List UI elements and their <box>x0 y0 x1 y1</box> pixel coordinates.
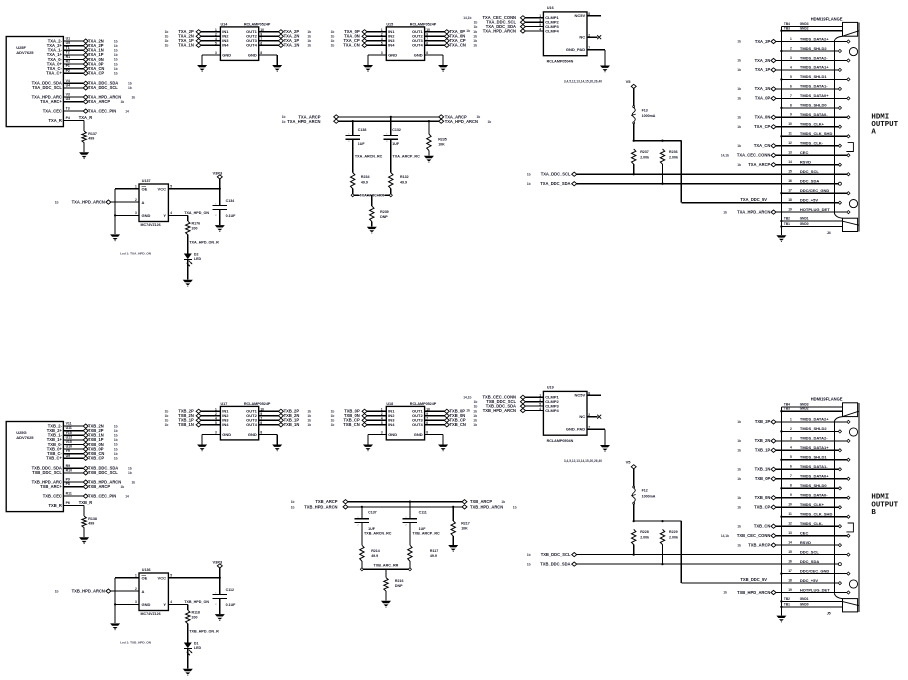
svg-text:GND: GND <box>388 53 397 58</box>
capacitor C138 1UF <box>345 120 366 146</box>
wire net TXA_HPD_ON <box>168 211 209 221</box>
svg-text:TXA_CP: TXA_CP <box>88 71 104 76</box>
pin 8 NC5V stub <box>587 12 601 16</box>
wire shield ground bus <box>780 407 782 615</box>
svg-text:TMDS_CLK_SHD: TMDS_CLK_SHD <box>800 512 833 517</box>
node TXA_DDC_SDA <box>83 81 132 86</box>
svg-text:U17: U17 <box>221 402 228 406</box>
pin 7 TMDS_DATA0+ <box>776 93 850 100</box>
wire net TXB_CEC_CONN <box>463 394 543 400</box>
pin 18 DDC_+5V <box>788 578 841 585</box>
svg-text:49.9: 49.9 <box>371 554 378 558</box>
svg-text:TXA_DDC_5V: TXA_DDC_5V <box>740 197 767 202</box>
svg-text:1b: 1b <box>737 449 741 453</box>
wire net TXB_HPD_ARCN rail <box>291 505 517 510</box>
wire net TXB_R <box>63 500 92 516</box>
svg-text:14: 14 <box>788 160 792 164</box>
svg-text:1b: 1b <box>474 20 478 24</box>
svg-text:1000mA: 1000mA <box>642 114 656 118</box>
svg-text:C138: C138 <box>358 128 367 132</box>
wire TB3 GND2 <box>781 26 842 31</box>
svg-text:P6: P6 <box>66 501 70 505</box>
wire net TXA_DDC_SDA <box>63 82 83 84</box>
svg-text:2: 2 <box>348 141 350 143</box>
svg-text:1b: 1b <box>114 44 118 48</box>
svg-text:1b: 1b <box>737 40 741 44</box>
svg-text:14: 14 <box>125 494 129 498</box>
svg-text:HDMI19FLANGE: HDMI19FLANGE <box>811 16 843 21</box>
wire net TXB_0P <box>63 448 83 450</box>
node TXB_DDC_SDA <box>83 466 132 471</box>
svg-text:2.00k: 2.00k <box>640 536 649 540</box>
svg-text:10: 10 <box>788 503 792 507</box>
svg-text:4: 4 <box>170 600 172 604</box>
wire OE/GND tie rail <box>114 578 139 623</box>
svg-text:1b: 1b <box>737 59 741 63</box>
ground <box>215 614 225 621</box>
svg-text:RSVD: RSVD <box>800 540 811 545</box>
svg-text:TXB_ARCP: TXB_ARCP <box>315 499 337 504</box>
wire net TXB_1N out <box>259 422 311 427</box>
svg-text:1b: 1b <box>737 87 741 91</box>
svg-text:TXB_CP: TXB_CP <box>754 505 770 510</box>
wire net TXA_DDC_SDA <box>474 23 544 29</box>
svg-text:1b: 1b <box>132 95 136 99</box>
svg-text:17: 17 <box>788 189 792 193</box>
svg-text:1b: 1b <box>165 35 169 39</box>
svg-text:1b: 1b <box>737 125 741 129</box>
svg-text:R118: R118 <box>192 611 200 615</box>
svg-text:TXA_HPD_ARCN: TXA_HPD_ARCN <box>287 119 320 124</box>
svg-text:TXA_HPD_ON: TXA_HPD_ON <box>184 211 209 215</box>
svg-text:TMDS_DATA2-: TMDS_DATA2- <box>800 55 828 60</box>
svg-text:3: 3 <box>135 600 137 604</box>
wire net TXA_CN out <box>425 43 477 48</box>
svg-text:1: 1 <box>790 37 792 41</box>
wire net TXB_0N out <box>425 413 477 418</box>
ground <box>600 66 610 73</box>
svg-text:1b: 1b <box>291 506 295 510</box>
node TXB_2P <box>737 419 776 424</box>
svg-text:T3: T3 <box>66 107 70 111</box>
wire net TXA_ARCP_RC <box>391 139 420 172</box>
buffer U136 MC74VZ1G126 <box>135 568 172 616</box>
HDMI connector J4 (HDMI19FLANGE) <box>811 16 843 21</box>
wire net TXB_2N out <box>259 413 311 418</box>
svg-text:RCLAMP0504N: RCLAMP0504N <box>547 60 574 64</box>
svg-text:TMDS_DATA0-: TMDS_DATA0- <box>800 112 828 117</box>
svg-text:TXA_CN: TXA_CN <box>450 43 466 48</box>
wire net TXB_DDC_SCL <box>527 552 834 557</box>
svg-text:1b: 1b <box>331 39 335 43</box>
svg-text:1b: 1b <box>527 173 531 177</box>
svg-text:GND2: GND2 <box>800 407 809 411</box>
pin 14 RSVD <box>776 160 842 167</box>
svg-text:C112: C112 <box>226 588 234 592</box>
wire net TXA_CEC_PIN <box>63 110 83 112</box>
pin 1 TMDS_DATA2+ <box>776 36 850 43</box>
ground <box>79 152 89 159</box>
wire VCC to V3P3 <box>168 170 223 190</box>
pin 7 TMDS_DATA0+ <box>776 474 850 481</box>
resistor R176 200 <box>186 221 220 253</box>
svg-text:TXA_ARC+: TXA_ARC+ <box>40 99 62 104</box>
svg-text:F13: F13 <box>642 108 648 112</box>
svg-text:499: 499 <box>88 136 94 140</box>
resistor R216 DNP <box>384 569 404 600</box>
svg-text:TXB_CEC_CONN: TXB_CEC_CONN <box>737 533 770 538</box>
pin 15 DDC_SCL <box>788 549 850 556</box>
svg-text:9: 9 <box>790 493 792 497</box>
svg-text:TXA_DDC_SDA: TXA_DDC_SDA <box>540 181 570 186</box>
svg-text:1b: 1b <box>132 480 136 484</box>
wire net TXA_0N <box>63 59 83 61</box>
wire net TXA_CP in <box>331 38 387 43</box>
svg-text:12: 12 <box>788 522 792 526</box>
svg-text:R235: R235 <box>438 137 447 141</box>
svg-text:ADV7625: ADV7625 <box>16 50 34 55</box>
wire GND pin3 <box>202 55 220 65</box>
svg-text:1b: 1b <box>165 410 169 414</box>
svg-text:GND: GND <box>414 53 423 58</box>
svg-text:8: 8 <box>426 51 428 55</box>
node TXA_0N <box>737 115 776 120</box>
pin 16 DDC_SDA <box>788 179 841 186</box>
svg-text:TMDS_SHLD0: TMDS_SHLD0 <box>800 483 827 488</box>
svg-text:1b: 1b <box>55 590 59 594</box>
svg-text:P8: P8 <box>66 482 70 486</box>
ground <box>424 156 434 163</box>
wire shield ground bus <box>780 27 782 235</box>
wire TB4 GND3 <box>781 22 842 27</box>
wire GND pin3 <box>202 435 220 445</box>
IC U25F (ADV7625) HDMI transmitter section TXA <box>6 37 70 127</box>
svg-text:1UF: 1UF <box>392 142 400 146</box>
svg-text:1b: 1b <box>307 419 311 423</box>
svg-text:R10: R10 <box>66 468 72 472</box>
svg-text:2.00k: 2.00k <box>669 536 678 540</box>
svg-text:9: 9 <box>790 113 792 117</box>
node TXA_CP <box>83 71 117 76</box>
svg-text:1b: 1b <box>527 182 531 186</box>
node TXA_CP <box>737 124 776 129</box>
pin 5 TMDS_SHLD1 <box>780 74 850 81</box>
svg-text:TXB_ARC+: TXB_ARC+ <box>40 484 62 489</box>
pin 13 CEC <box>776 150 850 157</box>
svg-text:TXA_HPD_ARCN: TXA_HPD_ARCN <box>483 28 516 33</box>
wire net TXB_HPD_ARCN input <box>55 589 139 594</box>
TVS clamp U19 RCLAMP0504N (CEC/DDC) <box>543 385 587 443</box>
svg-text:RCLAMP0524P: RCLAMP0524P <box>244 22 271 26</box>
svg-text:4: 4 <box>539 407 541 411</box>
wire net TXB_0P in <box>331 409 387 414</box>
svg-text:NC5V: NC5V <box>575 393 586 398</box>
svg-text:1b: 1b <box>307 410 311 414</box>
svg-text:1b: 1b <box>473 30 477 34</box>
pin 8 NC5V stub <box>587 391 601 395</box>
connector body outline <box>827 22 859 235</box>
wire net TXA_2N <box>63 40 83 42</box>
svg-text:1b: 1b <box>331 414 335 418</box>
svg-text:2.00k: 2.00k <box>669 155 678 159</box>
svg-text:1b: 1b <box>473 44 477 48</box>
wire net TXA_1P in <box>165 38 221 43</box>
node TXA_1N <box>737 86 776 91</box>
svg-text:R228: R228 <box>640 530 649 534</box>
wire net TXA_ARCP <box>63 101 83 103</box>
svg-text:TXB_1P: TXB_1P <box>755 448 771 453</box>
wire net TXB_HPD_ARCN <box>466 407 543 413</box>
capacitor C134 0.1UF <box>213 189 237 225</box>
wire net TXA_CP <box>63 72 83 74</box>
svg-text:TMDS_SHLD2: TMDS_SHLD2 <box>800 46 827 51</box>
svg-text:GND0: GND0 <box>800 602 809 606</box>
svg-text:R236: R236 <box>669 150 678 154</box>
svg-text:13: 13 <box>788 151 792 155</box>
TVS clamp U16 RCLAMP0504N (CEC/DDC) <box>543 6 587 64</box>
svg-text:5: 5 <box>170 574 172 578</box>
svg-text:14: 14 <box>125 109 129 113</box>
svg-text:TXB_HPD_ARCN: TXB_HPD_ARCN <box>72 589 105 594</box>
svg-text:TXB_ARC_RR: TXB_ARC_RR <box>374 564 399 568</box>
svg-text:Y: Y <box>163 213 166 218</box>
svg-text:1b: 1b <box>307 39 311 43</box>
svg-text:U9: U9 <box>66 454 71 458</box>
svg-text:8: 8 <box>588 12 590 16</box>
svg-text:U10: U10 <box>66 445 72 449</box>
svg-text:DNP: DNP <box>395 584 403 588</box>
caption HDMI OUTPUT B <box>871 494 898 517</box>
svg-text:TMDS_DATA1+: TMDS_DATA1+ <box>800 445 829 450</box>
svg-text:U9: U9 <box>66 41 71 45</box>
svg-text:1b: 1b <box>121 485 125 489</box>
ground <box>272 445 282 452</box>
connector ground pins note <box>564 79 602 83</box>
svg-text:TXB_ARCP: TXB_ARCP <box>88 484 110 489</box>
svg-text:1b: 1b <box>165 39 169 43</box>
svg-text:VCC: VCC <box>158 187 167 192</box>
svg-text:DDC/CEC_GND: DDC/CEC_GND <box>800 188 829 193</box>
svg-text:IN4: IN4 <box>388 422 395 427</box>
node TXA_1P <box>83 52 117 57</box>
wire net TXB_2P in <box>165 409 221 414</box>
svg-text:2: 2 <box>135 198 137 202</box>
wire net TXA_2P in <box>165 29 221 34</box>
pin 10 TMDS_CLK+ <box>776 122 842 129</box>
svg-text:3: 3 <box>790 56 792 60</box>
svg-text:TXA_HPD_ARCN: TXA_HPD_ARCN <box>737 209 770 214</box>
svg-text:TXA_DDC_SCL: TXA_DDC_SCL <box>88 85 118 90</box>
svg-text:1000mA: 1000mA <box>642 495 656 499</box>
svg-text:TMDS_DATA2+: TMDS_DATA2+ <box>800 417 829 422</box>
connector ground pins note <box>564 459 602 463</box>
wire GND pin8 <box>425 435 444 445</box>
svg-text:15: 15 <box>788 170 792 174</box>
node TXB_1P <box>83 437 117 442</box>
node TXA_1P <box>737 67 776 72</box>
svg-text:V4: V4 <box>66 79 70 83</box>
svg-text:U14: U14 <box>221 22 229 26</box>
wire GND pin3 <box>368 435 386 445</box>
wire net TXA_0P in <box>331 29 387 34</box>
svg-text:TMDS_SHLD1: TMDS_SHLD1 <box>800 455 827 460</box>
svg-text:A: A <box>142 589 145 594</box>
svg-text:1b: 1b <box>737 477 741 481</box>
svg-text:U19: U19 <box>547 385 554 389</box>
svg-text:1b: 1b <box>128 467 132 471</box>
svg-text:6: 6 <box>790 465 792 469</box>
svg-text:TXB_CN: TXB_CN <box>343 422 359 427</box>
svg-text:TXA_ARCP: TXA_ARCP <box>88 99 110 104</box>
LED D1 <box>184 641 202 668</box>
svg-text:V10: V10 <box>66 440 72 444</box>
wire net TXA_2N in <box>165 34 221 39</box>
svg-text:TMDS_DATA1+: TMDS_DATA1+ <box>800 65 829 70</box>
svg-text:2: 2 <box>135 587 137 591</box>
ground <box>776 235 786 242</box>
svg-text:1b: 1b <box>165 423 169 427</box>
svg-text:1b: 1b <box>466 409 470 413</box>
svg-text:3: 3 <box>539 398 541 402</box>
svg-text:P4: P4 <box>66 116 70 120</box>
ground <box>272 65 282 72</box>
svg-text:5: 5 <box>539 23 541 27</box>
svg-text:1b: 1b <box>513 506 517 510</box>
ground <box>438 445 448 452</box>
svg-text:OUT4: OUT4 <box>246 422 257 427</box>
svg-text:A: A <box>142 200 145 205</box>
pin 11 TMDS_CLK_SHD <box>780 512 850 519</box>
svg-text:R117: R117 <box>430 549 438 553</box>
svg-text:TXB_1N: TXB_1N <box>178 422 194 427</box>
svg-text:8: 8 <box>790 103 792 107</box>
svg-text:1b: 1b <box>737 116 741 120</box>
svg-text:CEC: CEC <box>800 531 809 536</box>
wire net TXB_2N in <box>165 413 221 418</box>
svg-text:TMDS_SHLD2: TMDS_SHLD2 <box>800 426 827 431</box>
svg-text:3: 3 <box>135 211 137 215</box>
ground <box>197 65 207 72</box>
wire GND pin8 <box>259 55 278 65</box>
note text <box>120 252 152 256</box>
node TXA_0P <box>83 61 117 66</box>
svg-text:2: 2 <box>215 215 217 217</box>
svg-text:A: A <box>871 129 876 137</box>
node TXB_ARCP <box>737 542 776 547</box>
wire net TXB_DDC_SDA <box>527 562 834 567</box>
svg-text:TXA_C+: TXA_C+ <box>46 71 62 76</box>
wire net TXA_HPD_ARCN <box>63 96 83 98</box>
svg-text:3: 3 <box>790 436 792 440</box>
power net V5 <box>626 79 637 105</box>
pin 7 GND_PAD wire <box>587 46 605 65</box>
node TXB_ARCP <box>83 484 124 489</box>
node TXB_0P <box>737 476 776 481</box>
wire net TXA_2N out <box>259 34 311 39</box>
svg-text:499: 499 <box>88 521 94 525</box>
svg-text:TMDS_CLK_SHD: TMDS_CLK_SHD <box>800 131 833 136</box>
svg-text:DDC_SDA: DDC_SDA <box>800 559 819 564</box>
resistor R237 2.00k (SCL pullup) <box>632 149 650 175</box>
svg-text:1b: 1b <box>128 471 132 475</box>
svg-text:49.9: 49.9 <box>400 180 407 184</box>
svg-text:V3P3: V3P3 <box>213 559 224 564</box>
wire net TXB_1P out <box>259 418 311 423</box>
svg-text:TMDS_DATA0+: TMDS_DATA0+ <box>800 474 829 479</box>
wire net TXB_DDC_SCL <box>63 472 83 474</box>
svg-text:R176: R176 <box>192 222 201 226</box>
svg-text:2: 2 <box>215 604 217 606</box>
svg-text:7: 7 <box>790 94 792 98</box>
svg-text:1b: 1b <box>114 49 118 53</box>
wire TB2 GND1 <box>781 597 842 602</box>
pin 7 GND_PAD wire <box>587 426 605 445</box>
svg-text:NC: NC <box>579 414 585 419</box>
svg-text:200: 200 <box>192 616 198 620</box>
svg-text:19: 19 <box>788 208 792 212</box>
svg-text:TXA_R: TXA_R <box>79 115 92 120</box>
pin 3 TMDS_DATA2- <box>776 55 850 62</box>
svg-text:1b: 1b <box>114 434 118 438</box>
svg-text:10K: 10K <box>461 526 468 530</box>
pin 4 TMDS_DATA1+ <box>776 65 842 72</box>
svg-text:4: 4 <box>790 65 792 69</box>
svg-text:TXA_DDC_SCL: TXA_DDC_SCL <box>541 172 571 177</box>
svg-text:TXA_CEC_CONN: TXA_CEC_CONN <box>737 153 770 158</box>
svg-text:T1: T1 <box>66 46 70 50</box>
svg-text:TXB_ARCN_RC: TXB_ARCN_RC <box>364 531 392 535</box>
pin 17 DDC/CEC_GND <box>780 568 850 575</box>
svg-text:TMDS_DATA2+: TMDS_DATA2+ <box>800 36 829 41</box>
svg-text:1b: 1b <box>473 39 477 43</box>
svg-text:R9: R9 <box>66 464 71 468</box>
svg-text:10K: 10K <box>438 143 445 147</box>
node TXB_0P <box>83 446 117 451</box>
svg-text:1b: 1b <box>737 439 741 443</box>
wire net TXA_CP out <box>425 38 477 43</box>
svg-text:TXA_ARCP: TXA_ARCP <box>748 162 770 167</box>
svg-text:1b: 1b <box>114 443 118 447</box>
svg-text:TXA_1P: TXA_1P <box>755 67 771 72</box>
node TXA_CEC_CONN <box>721 153 776 158</box>
svg-text:IN4: IN4 <box>388 43 395 48</box>
pin 15 DDC_SCL <box>788 169 850 176</box>
ground <box>438 65 448 72</box>
wire net TXB_HPD_ON <box>168 600 209 610</box>
svg-text:1b: 1b <box>114 62 118 66</box>
svg-text:U3: U3 <box>66 97 71 101</box>
svg-text:C134: C134 <box>226 199 235 203</box>
capacitor C137 1UF <box>355 506 377 531</box>
pin 2 TMDS_SHLD2 <box>780 426 841 433</box>
wire GND pin3 <box>368 55 386 65</box>
svg-text:TB1: TB1 <box>784 602 790 606</box>
wire net TXB_ARCP <box>63 486 83 488</box>
svg-text:2: 2 <box>357 524 359 526</box>
ground <box>110 623 120 630</box>
svg-text:HDMI19FLANGE: HDMI19FLANGE <box>811 397 843 402</box>
svg-text:2: 2 <box>790 46 792 50</box>
fuse F13 1000mA <box>631 106 656 141</box>
svg-text:8: 8 <box>260 51 262 55</box>
wire net TXB_DDC_SDA <box>63 467 83 469</box>
fuse F12 1000mA <box>631 486 656 521</box>
svg-text:13: 13 <box>788 531 792 535</box>
svg-text:1b: 1b <box>527 553 531 557</box>
svg-text:R239: R239 <box>380 210 389 214</box>
svg-text:1b: 1b <box>737 467 741 471</box>
svg-text:GND: GND <box>248 53 257 58</box>
